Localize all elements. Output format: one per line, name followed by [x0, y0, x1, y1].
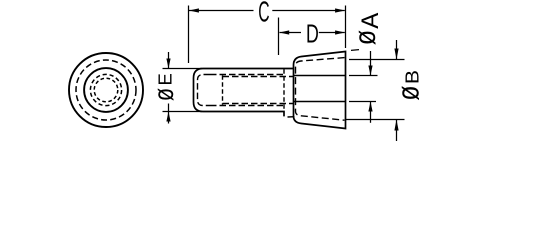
- svg-text:E: E: [155, 73, 176, 85]
- dim B top arrow: [394, 49, 398, 60]
- front view dashed circle r15.6: [90, 74, 121, 105]
- dim A bottom arrow: [368, 102, 372, 112]
- svg-text:C: C: [258, 0, 269, 27]
- dim E top arrow: [166, 59, 170, 69]
- dim D extension left: [278, 18, 280, 56]
- svg-text:ø: ø: [391, 85, 425, 100]
- svg-text:ø: ø: [348, 30, 381, 46]
- dim B top extension: [349, 59, 405, 61]
- dim A bottom extension: [349, 101, 376, 103]
- tube end dashed vertical: [283, 69, 285, 110]
- cap top right stray extension: [351, 49, 359, 52]
- dim A top arrow: [368, 66, 372, 76]
- dim A line: [370, 51, 372, 76]
- cap inner surface dashed: [296, 58, 345, 121]
- dim C left arrow: [189, 8, 199, 12]
- dim C extension left: [188, 6, 190, 64]
- dim D line: [280, 32, 302, 34]
- svg-text:D: D: [306, 19, 319, 48]
- svg-text:A: A: [357, 13, 384, 29]
- front view outer circle: [69, 53, 143, 127]
- front view solid circle r22: [84, 68, 128, 112]
- cap inner bottom lead dashed: [288, 116, 296, 118]
- tube outline: [194, 69, 294, 117]
- dim D right arrow: [335, 30, 345, 34]
- dim A top extension: [349, 75, 378, 77]
- dim B bottom extension: [346, 119, 405, 121]
- dim D left arrow: [279, 30, 289, 34]
- dim C right extension above cap: [345, 6, 347, 49]
- dim C right arrow: [335, 8, 345, 12]
- svg-text:ø: ø: [148, 88, 179, 101]
- svg-text:B: B: [403, 70, 423, 84]
- dim E top extension: [163, 68, 203, 70]
- front view dashed circle r30: [76, 60, 136, 120]
- cap outline: [294, 52, 346, 129]
- bore through-cap bottom solid: [294, 101, 346, 103]
- dim B line: [396, 40, 398, 59]
- tube bore dashed rounded end: [198, 75, 211, 106]
- bore step dashed vertical: [222, 75, 224, 105]
- dim E bottom extension: [163, 111, 203, 113]
- dim E line: [168, 52, 170, 68]
- small bore top dashed: [223, 76, 294, 78]
- dim C line: [189, 10, 254, 12]
- dim E bottom arrow: [166, 112, 170, 122]
- front view dashed circle r11.8: [94, 78, 118, 102]
- tube bore bottom dashed: [210, 105, 283, 107]
- dim B bottom arrow: [394, 120, 398, 131]
- bore through-cap top solid: [294, 75, 346, 77]
- tube bore top dashed: [210, 74, 283, 76]
- small bore bottom dashed: [223, 103, 294, 105]
